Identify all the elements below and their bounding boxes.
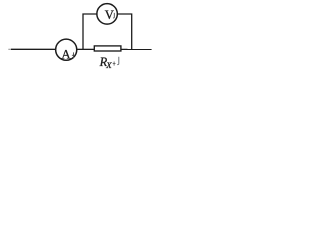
svg-text:X: X [105,60,112,70]
svg-text:V: V [105,8,114,22]
svg-text:A: A [61,47,71,61]
